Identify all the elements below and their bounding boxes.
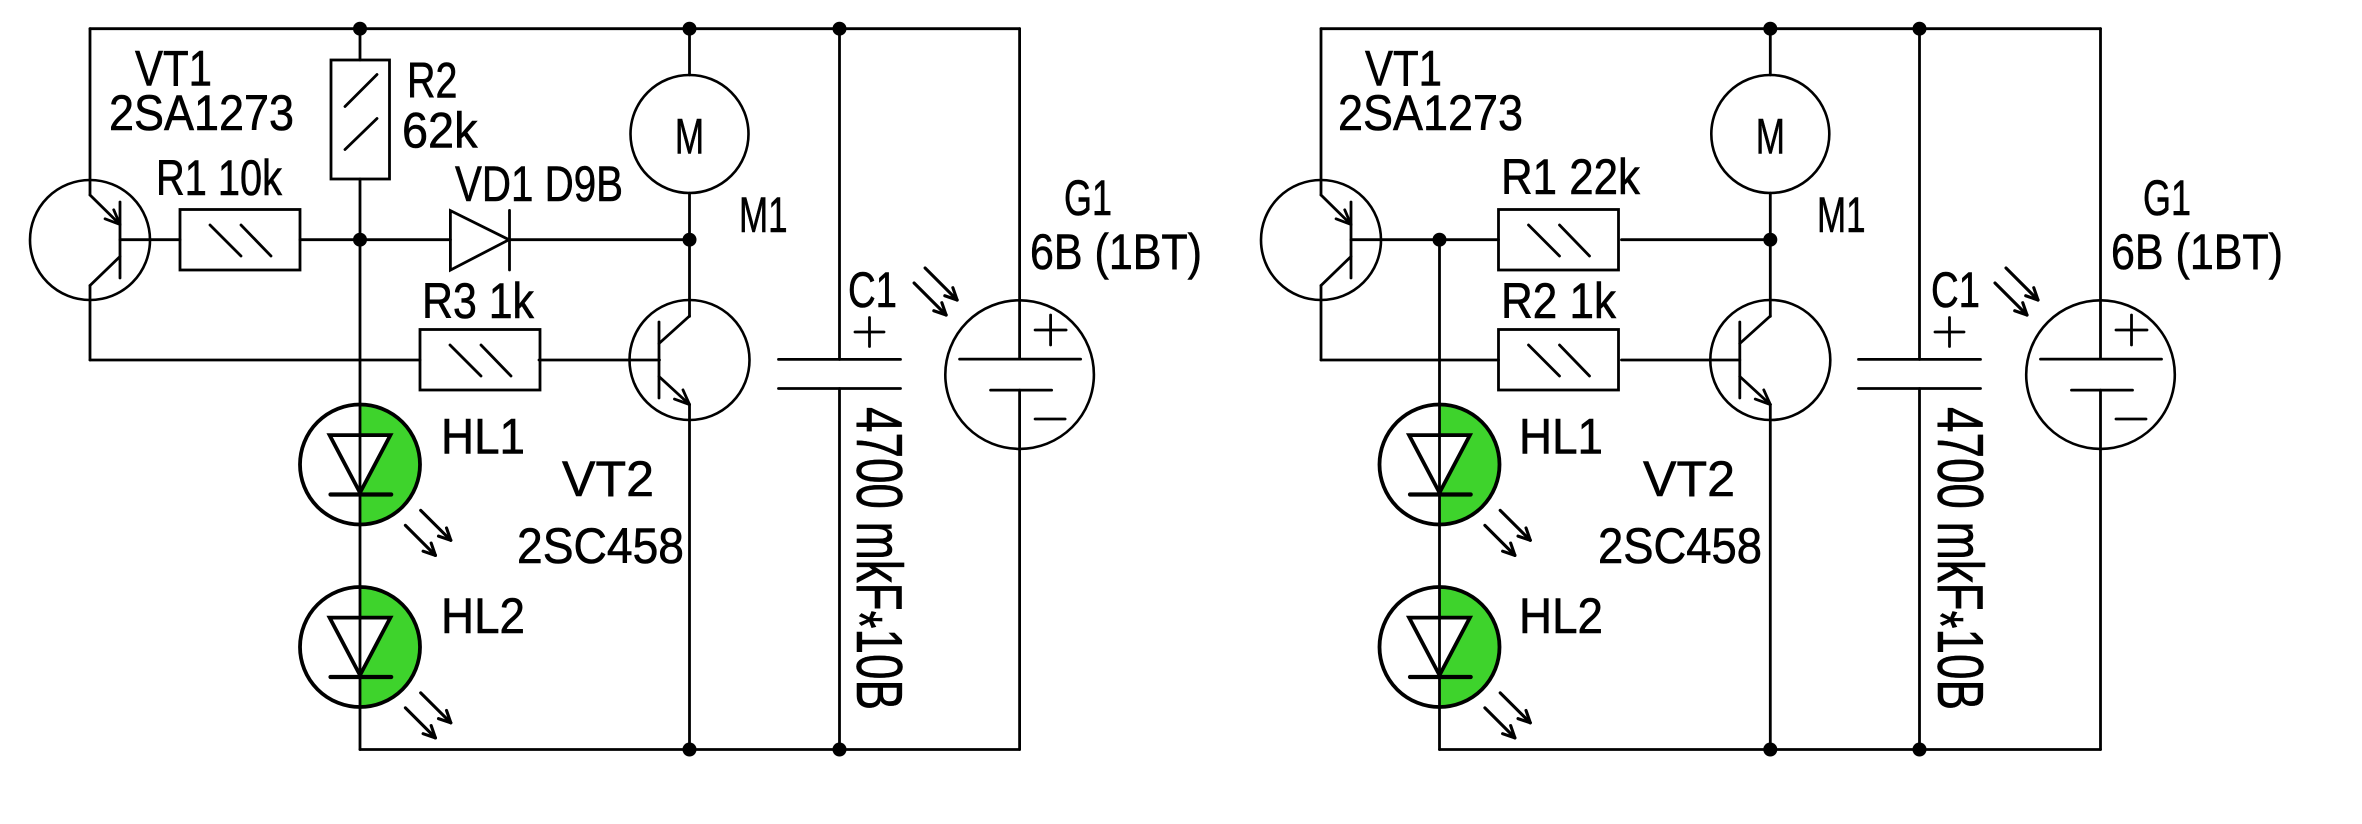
svg-text:2SC458: 2SC458 (1598, 518, 1762, 574)
svg-text:C1: C1 (848, 262, 897, 318)
svg-text:R2 1k: R2 1k (1501, 273, 1617, 329)
svg-text:HL1: HL1 (441, 409, 525, 465)
svg-text:6B (1BT): 6B (1BT) (2111, 224, 2283, 280)
svg-text:2SA1273: 2SA1273 (1338, 85, 1523, 141)
svg-text:G1: G1 (2143, 170, 2191, 226)
svg-text:VT2: VT2 (1643, 451, 1735, 507)
svg-text:HL1: HL1 (1519, 409, 1603, 465)
svg-text:M: M (1756, 108, 1785, 164)
svg-text:R1 10k: R1 10k (156, 150, 283, 206)
svg-text:HL2: HL2 (1519, 588, 1603, 644)
svg-text:G1: G1 (1064, 170, 1112, 226)
svg-text:M1: M1 (739, 187, 788, 243)
svg-text:HL2: HL2 (441, 588, 525, 644)
svg-text:R3 1k: R3 1k (422, 273, 535, 329)
svg-text:R1 22k: R1 22k (1501, 149, 1641, 205)
svg-text:R2: R2 (407, 52, 457, 108)
svg-text:M1: M1 (1817, 187, 1866, 243)
svg-text:M: M (675, 108, 704, 164)
svg-text:2SA1273: 2SA1273 (109, 85, 294, 141)
svg-text:2SC458: 2SC458 (517, 518, 684, 574)
svg-text:VD1 D9B: VD1 D9B (455, 156, 623, 212)
svg-text:62k: 62k (402, 103, 478, 159)
svg-text:C1: C1 (1931, 262, 1980, 318)
svg-text:VT2: VT2 (562, 451, 654, 507)
svg-text:6B (1BT): 6B (1BT) (1030, 224, 1202, 280)
